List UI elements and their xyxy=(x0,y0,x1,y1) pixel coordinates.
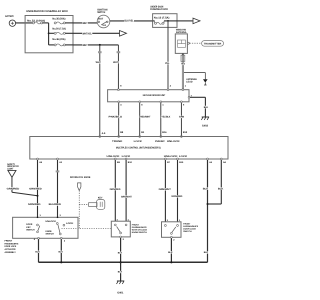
svg-text:DOOR LOCK: DOOR LOCK xyxy=(5,245,17,248)
svg-text:GRN/RED: GRN/RED xyxy=(7,187,20,190)
svg-text:TRANSMITTER: TRANSMITTER xyxy=(204,43,222,46)
svg-text:ACTUATOR: ACTUATOR xyxy=(5,248,16,251)
svg-text:WHT: WHT xyxy=(113,61,118,64)
svg-text:B16: B16 xyxy=(162,131,167,134)
svg-text:PASSENGER'S: PASSENGER'S xyxy=(5,242,19,245)
svg-text:PNK/BLU: PNK/BLU xyxy=(109,116,123,119)
svg-text:LOCK: LOCK xyxy=(122,155,131,158)
svg-text:G401: G401 xyxy=(117,291,124,294)
svg-text:SWITCH: SWITCH xyxy=(26,228,35,231)
svg-text:BLK/YEL: BLK/YEL xyxy=(125,20,134,23)
svg-text:BLU/RED: BLU/RED xyxy=(49,203,62,206)
svg-text:KEY: KEY xyxy=(26,226,31,229)
svg-text:BLK: BLK xyxy=(168,251,173,254)
svg-text:GRN/WHT: GRN/WHT xyxy=(121,195,132,198)
svg-text:GRN/RED: GRN/RED xyxy=(28,203,41,206)
svg-text:LEAD: LEAD xyxy=(186,81,192,84)
svg-text:BLK: BLK xyxy=(59,251,64,254)
svg-text:GRN/RED: GRN/RED xyxy=(171,195,182,198)
svg-text:G402: G402 xyxy=(202,125,209,128)
svg-text:GRN/RED: GRN/RED xyxy=(110,188,121,191)
svg-text:SWITCH: SWITCH xyxy=(46,233,55,236)
svg-text:GRN/RED: GRN/RED xyxy=(29,187,42,190)
svg-text:WHT: WHT xyxy=(96,61,102,64)
svg-text:SWITCH: SWITCH xyxy=(97,11,105,14)
svg-text:BLK: BLK xyxy=(218,187,224,190)
svg-text:BLK: BLK xyxy=(203,187,209,190)
svg-text:YEL/BLK: YEL/BLK xyxy=(161,116,170,119)
svg-text:LOCK: LOCK xyxy=(179,155,188,158)
svg-text:BLK: BLK xyxy=(118,252,123,255)
svg-text:BLK: BLK xyxy=(118,271,123,274)
svg-text:BLK: BLK xyxy=(35,251,40,254)
svg-text:BLK: BLK xyxy=(204,251,209,254)
svg-text:WHT: WHT xyxy=(82,44,88,47)
svg-text:SWITCH: SWITCH xyxy=(183,230,192,233)
svg-text:FUSE/RELAY BOX: FUSE/RELAY BOX xyxy=(150,8,168,11)
svg-text:B12: B12 xyxy=(183,131,188,134)
svg-text:KEYLESS RECEIVER UNIT: KEYLESS RECEIVER UNIT xyxy=(143,94,166,97)
svg-text:UNLOCK: UNLOCK xyxy=(46,220,57,223)
svg-text:RED/WHT: RED/WHT xyxy=(140,116,151,119)
svg-text:GRN/WHT: GRN/WHT xyxy=(159,188,172,191)
svg-text:LIGHT: LIGHT xyxy=(7,167,14,170)
svg-text:LOCK: LOCK xyxy=(66,222,74,225)
svg-text:RED: RED xyxy=(181,63,185,66)
svg-text:FRONT: FRONT xyxy=(5,239,13,242)
svg-text:No.50 (7.5A): No.50 (7.5A) xyxy=(52,28,66,31)
svg-text:ASSEMBLY: ASSEMBLY xyxy=(5,251,17,254)
svg-text:UNDERHOOD FUSE/RELAY BOX: UNDERHOOD FUSE/RELAY BOX xyxy=(26,10,68,13)
svg-text:BAT: BAT xyxy=(98,17,104,20)
svg-text:No.13 (7.5A): No.13 (7.5A) xyxy=(154,16,170,19)
svg-text:KNOB SWITCH: KNOB SWITCH xyxy=(132,231,147,234)
svg-text:PANIC: PANIC xyxy=(155,140,165,143)
svg-text:No.46 (20A): No.46 (20A) xyxy=(52,38,65,41)
svg-text:TRUNK: TRUNK xyxy=(112,140,123,143)
svg-text:BATTERY: BATTERY xyxy=(5,15,14,18)
svg-text:No.35 (50A): No.35 (50A) xyxy=(52,18,65,21)
svg-text:UNLOCK: UNLOCK xyxy=(167,140,180,143)
svg-text:GRN: GRN xyxy=(179,116,185,119)
svg-text:UNLOCK: UNLOCK xyxy=(164,155,178,158)
svg-text:DOOR/LOCK KNOB: DOOR/LOCK KNOB xyxy=(70,176,91,179)
svg-text:BLK: BLK xyxy=(204,106,209,109)
svg-text:MULTIPLEX CONTROL UNIT (PASSEN: MULTIPLEX CONTROL UNIT (PASSENGER'S) xyxy=(116,147,161,150)
svg-text:DOOR: DOOR xyxy=(26,223,32,226)
svg-text:UNLOCK: UNLOCK xyxy=(107,155,120,158)
svg-text:WHT: WHT xyxy=(82,22,88,25)
svg-text:YEL: YEL xyxy=(165,62,170,65)
svg-text:KEY: KEY xyxy=(98,197,103,200)
svg-text:LOCK: LOCK xyxy=(134,140,143,143)
svg-text:WHT/YEL: WHT/YEL xyxy=(82,32,92,35)
svg-text:KNOB: KNOB xyxy=(46,230,52,233)
